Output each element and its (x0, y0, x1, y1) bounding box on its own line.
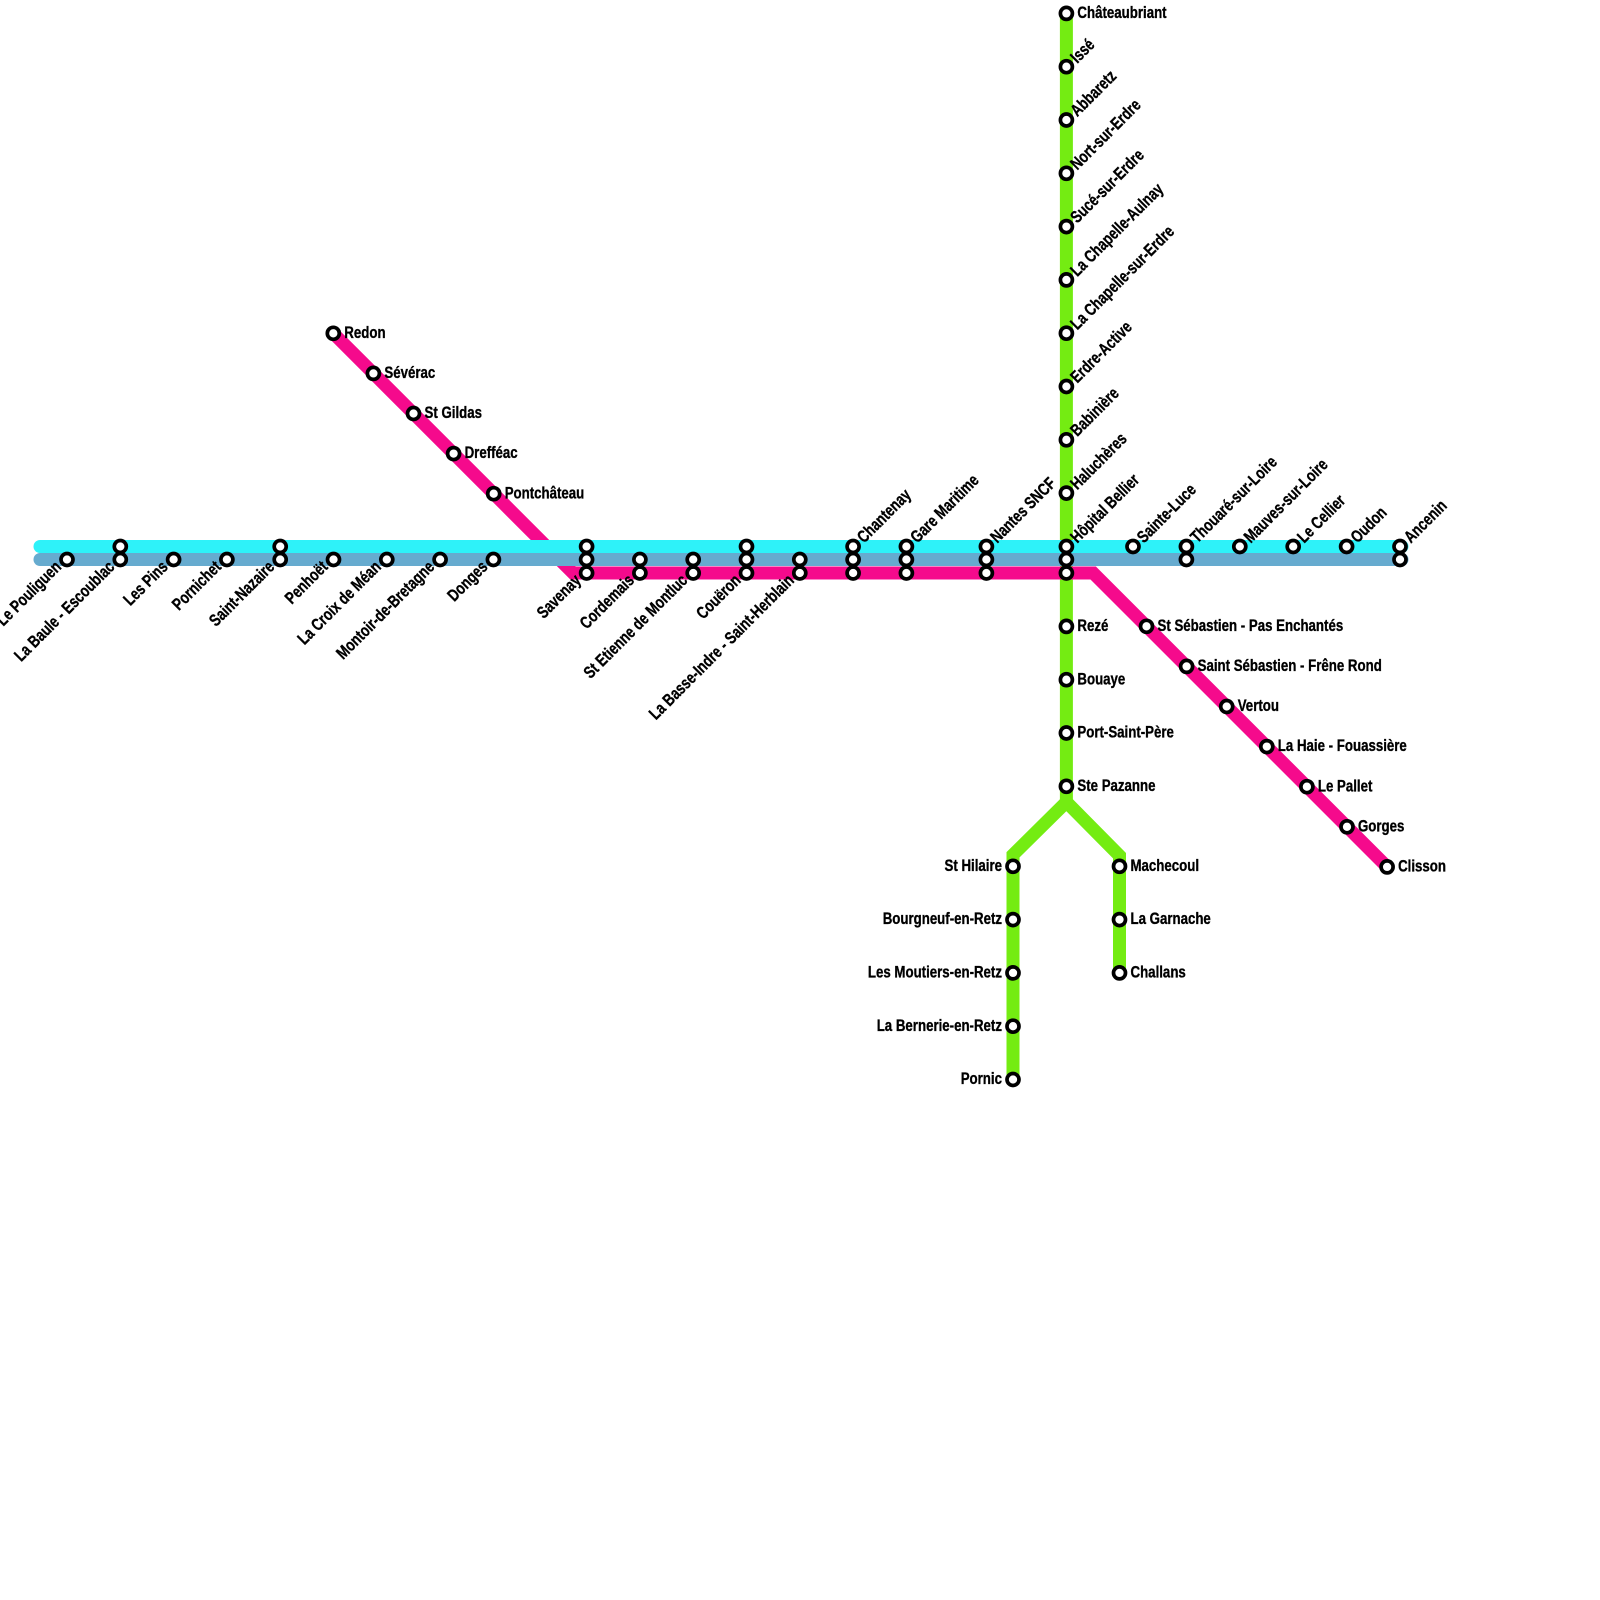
svg-text:St Gildas: St Gildas (425, 403, 483, 422)
station Pornichet (168, 554, 233, 615)
svg-text:Clisson: Clisson (1398, 857, 1446, 876)
station Saint Sébastien - Frêne Rond (1181, 656, 1382, 675)
svg-text:Vertou: Vertou (1238, 696, 1279, 715)
station La Bernerie-en-Retz (877, 1016, 1019, 1035)
svg-text:Port-Saint-Père: Port-Saint-Père (1077, 723, 1174, 742)
station Gorges (1341, 816, 1404, 835)
station Les Moutiers-en-Retz (868, 963, 1019, 982)
station Le Pouliguen (0, 554, 73, 630)
svg-text:La Bernerie-en-Retz: La Bernerie-en-Retz (877, 1016, 1002, 1035)
svg-text:Pontchâteau: Pontchâteau (505, 483, 585, 502)
station Challans (1114, 963, 1186, 982)
svg-text:Drefféac: Drefféac (465, 443, 518, 462)
svg-text:Nantes SNCF: Nantes SNCF (987, 474, 1060, 547)
station Abbaretz (1060, 67, 1120, 126)
station St Etienne de Montluc (580, 554, 699, 683)
svg-text:St Etienne de Montluc: St Etienne de Montluc (580, 571, 691, 682)
station La Chapelle-Aulnay (1060, 179, 1167, 286)
station Saint-Nazaire (205, 541, 286, 631)
wire: green line trunk Châteaubriant–Ste Pazanne (1060, 13, 1073, 802)
station Montoir-de-Bretagne (332, 554, 446, 663)
station Machecoul (1114, 856, 1200, 875)
wire: cyan line Le Pouliguen–Ancenis (40, 540, 1402, 553)
station Châteaubriant (1060, 3, 1166, 22)
station La Garnache (1114, 909, 1211, 928)
station Pornic (961, 1069, 1019, 1088)
svg-text:La Haie - Fouassière: La Haie - Fouassière (1278, 736, 1407, 755)
station Babinière (1060, 384, 1122, 446)
station St Hilaire (945, 856, 1020, 875)
svg-text:Gare Maritime: Gare Maritime (907, 471, 983, 547)
station Pontchâteau (488, 483, 585, 502)
station Le Cellier (1287, 491, 1349, 553)
svg-text:Savenay: Savenay (533, 570, 585, 622)
station Redon (327, 323, 385, 342)
svg-text:Châteaubriant: Châteaubriant (1077, 3, 1166, 22)
station Port-Saint-Père (1060, 723, 1174, 742)
svg-text:St Sébastien - Pas Enchantés: St Sébastien - Pas Enchantés (1158, 616, 1344, 635)
svg-text:La Chapelle-sur-Erdre: La Chapelle-sur-Erdre (1067, 222, 1178, 333)
station Erdre-Active (1060, 317, 1135, 392)
station La Basse-Indre - Saint-Herblain (645, 554, 805, 724)
station Couëron (693, 541, 753, 623)
station Nantes SNCF (980, 474, 1059, 579)
svg-text:Bourgneuf-en-Retz: Bourgneuf-en-Retz (883, 909, 1002, 928)
station Hôpital Bellier (1060, 470, 1143, 579)
svg-text:Chantenay: Chantenay (853, 485, 915, 547)
station Ancenin (1394, 496, 1451, 565)
wire: blue line Le Pouliguen–Ancenis (40, 553, 1402, 566)
station La Baule - Escoublac (11, 541, 127, 666)
svg-text:Machecoul: Machecoul (1131, 856, 1200, 875)
station La Croix de Méan (294, 554, 393, 649)
svg-text:Rezé: Rezé (1077, 616, 1108, 635)
station Thouaré-sur-Loire (1180, 452, 1280, 565)
svg-text:Sévérac: Sévérac (384, 363, 435, 382)
station Les Pins (120, 554, 180, 610)
svg-text:La Garnache: La Garnache (1131, 909, 1211, 928)
station La Chapelle-sur-Erdre (1060, 222, 1178, 339)
station Savenay (533, 541, 592, 623)
wire: green line branch to Challans (1066, 802, 1119, 973)
station Nort-sur-Erdre (1060, 95, 1144, 179)
station Sucé-sur-Erdre (1060, 146, 1147, 233)
station Gare Maritime (900, 471, 982, 579)
station Issé (1060, 35, 1098, 73)
station St Sébastien - Pas Enchantés (1141, 616, 1344, 635)
station St Gildas (408, 403, 483, 422)
svg-text:Pornic: Pornic (961, 1069, 1002, 1088)
station Clisson (1381, 857, 1446, 876)
svg-text:St Hilaire: St Hilaire (945, 856, 1003, 875)
svg-text:Gorges: Gorges (1358, 816, 1404, 835)
station Sainte-Luce (1127, 480, 1200, 552)
station Haluchères (1060, 429, 1130, 499)
station Drefféac (448, 443, 518, 462)
station Chantenay (847, 485, 915, 579)
station Bourgneuf-en-Retz (883, 909, 1019, 928)
station Bouaye (1060, 669, 1125, 688)
svg-text:Le Pallet: Le Pallet (1318, 776, 1373, 795)
station Le Pallet (1301, 776, 1373, 795)
svg-text:Redon: Redon (344, 323, 385, 342)
wire: green line branch to Pornic (1013, 802, 1066, 1080)
svg-text:La Chapelle-Aulnay: La Chapelle-Aulnay (1067, 179, 1168, 280)
svg-text:Montoir-de-Bretagne: Montoir-de-Bretagne (332, 557, 438, 663)
svg-text:Ancenin: Ancenin (1400, 496, 1450, 546)
svg-text:Saint Sébastien - Frêne Rond: Saint Sébastien - Frêne Rond (1198, 656, 1382, 675)
station La Haie - Fouassière (1261, 736, 1407, 755)
station Sévérac (367, 363, 435, 382)
svg-text:Les Moutiers-en-Retz: Les Moutiers-en-Retz (868, 963, 1002, 982)
station Penhoët (281, 554, 339, 608)
svg-text:Bouaye: Bouaye (1077, 669, 1125, 688)
station Ste Pazanne (1060, 776, 1155, 795)
station Cordemais (576, 554, 646, 633)
svg-text:Le Cellier: Le Cellier (1293, 491, 1349, 547)
station Rezé (1060, 616, 1108, 635)
wire: pink line Redon–Clisson (333, 333, 1387, 867)
station Oudon (1341, 503, 1391, 553)
svg-text:Ste Pazanne: Ste Pazanne (1077, 776, 1155, 795)
station Donges (444, 554, 500, 606)
svg-text:La Baule - Escoublac: La Baule - Escoublac (11, 557, 119, 665)
station Vertou (1221, 696, 1279, 715)
svg-text:Challans: Challans (1131, 963, 1186, 982)
svg-text:Abbaretz: Abbaretz (1067, 67, 1121, 121)
station Mauves-sur-Loire (1234, 455, 1332, 552)
